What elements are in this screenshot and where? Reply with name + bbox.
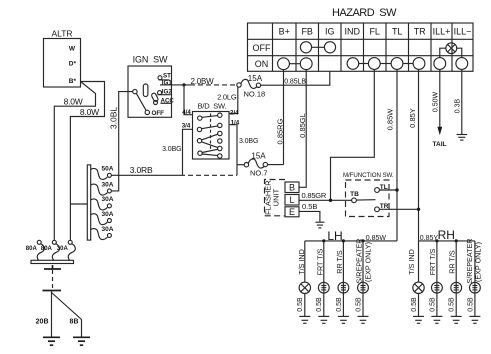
svg-text:50A: 50A xyxy=(102,166,114,173)
ground (battery 20B) xyxy=(43,337,60,345)
svg-text:0.85LB: 0.85LB xyxy=(284,78,306,85)
svg-text:8B: 8B xyxy=(70,319,79,326)
svg-text:D*: D* xyxy=(69,60,77,67)
LH bus wire xyxy=(305,240,397,242)
svg-text:B/D SW.: B/D SW. xyxy=(198,102,227,111)
wire ILL- drop 0.3B to ground xyxy=(454,69,462,134)
svg-text:OFF: OFF xyxy=(253,43,271,53)
ground (LH T/S IND) xyxy=(299,316,310,323)
svg-text:30A: 30A xyxy=(102,211,114,218)
wire 8.0W second branch to fusible link 30A xyxy=(70,82,104,241)
svg-text:UNIT: UNIT xyxy=(272,188,281,206)
svg-text:8.0W: 8.0W xyxy=(64,97,83,107)
svg-text:0.50W: 0.50W xyxy=(433,91,440,112)
hazard switch table grid xyxy=(248,23,474,71)
ground (LH RR T/S) xyxy=(338,316,349,323)
svg-text:TR: TR xyxy=(414,27,426,37)
IGN SW IG2 terminal xyxy=(157,88,172,95)
svg-text:ALTR: ALTR xyxy=(51,29,72,39)
svg-text:0.5B: 0.5B xyxy=(411,297,418,312)
svg-text:0.85GR: 0.85GR xyxy=(302,191,327,200)
RH turn signal indicator lamp T/S IND xyxy=(407,241,424,317)
svg-text:0.5B: 0.5B xyxy=(297,297,304,312)
svg-text:30A: 30A xyxy=(102,196,114,203)
ground (ILL-) xyxy=(457,135,468,141)
junction node on 2.0BW xyxy=(182,83,185,86)
fuse 30A spare xyxy=(91,211,114,225)
svg-text:0.5B: 0.5B xyxy=(336,297,343,312)
svg-text:30A: 30A xyxy=(102,181,114,188)
svg-text:L: L xyxy=(289,195,294,205)
wire fuse NO.18 to B+ / IG column 0.85LB xyxy=(261,71,330,85)
wire TL drop 0.85W xyxy=(385,69,397,241)
junction node TB feed xyxy=(329,199,332,202)
wire 8.0W from B* to fusible link 80A xyxy=(54,82,95,241)
function switch arm xyxy=(356,199,375,201)
fuse 15A NO.18 xyxy=(237,74,265,98)
svg-text:30A: 30A xyxy=(57,246,69,252)
fusible link 80A xyxy=(41,240,60,260)
function switch TB contact xyxy=(350,191,359,203)
svg-text:15A: 15A xyxy=(251,151,266,160)
hazard table header labels xyxy=(279,27,472,37)
svg-text:OFF: OFF xyxy=(152,110,165,117)
alternator ALTR xyxy=(44,29,81,87)
wire TR drop 0.85Y xyxy=(408,69,419,241)
svg-text:RH: RH xyxy=(438,228,455,242)
ON row contact ILL- xyxy=(456,58,468,70)
ON row contact TR xyxy=(413,58,425,70)
ground (RH T/S IND) xyxy=(413,316,424,323)
svg-text:0.85GL: 0.85GL xyxy=(298,113,307,138)
wire 20B to ground xyxy=(36,291,52,338)
body/dimmer switch B/D SW xyxy=(193,102,230,159)
svg-text:3.0RB: 3.0RB xyxy=(130,165,153,175)
fusible link 80A (spare) xyxy=(26,240,45,260)
junction node TR column xyxy=(417,208,420,211)
fuse 50A xyxy=(91,166,114,180)
wire fuse NO.7 to hazard B+ drop xyxy=(268,164,284,166)
function switch TL contact xyxy=(375,184,397,193)
junction node TL column xyxy=(395,188,398,191)
flasher terminal L xyxy=(285,195,299,206)
LH side repeater lamp S/REPEATER (EXP ONLY) xyxy=(354,239,372,317)
ON row contact ILL+ xyxy=(434,58,446,70)
svg-text:RR T/S: RR T/S xyxy=(448,250,457,274)
RH bus wire xyxy=(419,240,475,242)
ON row contact TL xyxy=(391,58,403,70)
svg-text:2.0BW: 2.0BW xyxy=(191,77,215,86)
svg-text:ILL−: ILL− xyxy=(454,27,472,37)
wire link to fuse busbar xyxy=(70,203,87,205)
svg-text:30A: 30A xyxy=(102,226,114,233)
fuse 30A (to IGN SW 3.0BL) xyxy=(91,181,114,195)
svg-text:1/4: 1/4 xyxy=(231,120,240,127)
wire FL drop to function switch TB node xyxy=(331,69,375,200)
svg-text:80A: 80A xyxy=(26,246,38,252)
wire 2.0BW from IG1 to fuse NO.18 xyxy=(172,77,237,86)
ground (flasher E) xyxy=(315,222,324,228)
multifunction switch M/FUNCTION SW xyxy=(343,172,394,217)
svg-text:3.0BG: 3.0BG xyxy=(162,146,181,153)
IGN SW IG1 terminal xyxy=(160,79,172,86)
wire B+ drop 0.85RG xyxy=(275,69,284,164)
ON row IND-FL-TL-TR links xyxy=(359,63,414,65)
wire 3.0RB from 50A fuse xyxy=(111,165,237,176)
flasher terminal E xyxy=(285,207,299,217)
svg-text:NO.18: NO.18 xyxy=(244,89,266,98)
B/D SW wiper diagonals xyxy=(202,116,218,156)
fusible link 30A xyxy=(57,240,76,260)
IGN SW OFF contact xyxy=(145,110,164,117)
svg-text:4/4: 4/4 xyxy=(182,109,191,116)
ON row contact FL xyxy=(368,58,380,70)
IGN SW pivot contact xyxy=(133,89,137,93)
flasher unit dashed enclosure xyxy=(264,180,286,216)
svg-text:IND: IND xyxy=(344,27,360,37)
wire ILL+ drop 0.50W to TAIL xyxy=(433,69,447,148)
svg-text:0.5B: 0.5B xyxy=(449,297,456,312)
ground (RH RR T/S) xyxy=(451,316,462,323)
svg-text:0.85Y: 0.85Y xyxy=(408,108,417,128)
ON row B+-FB link xyxy=(289,63,300,65)
OFF row FB-IG link xyxy=(312,46,325,48)
fuse 15A NO.7 xyxy=(237,151,268,177)
ground (LH FRT T/S) xyxy=(318,316,329,323)
ground (LH S/REPEATER) xyxy=(358,316,369,323)
svg-text:FB: FB xyxy=(301,27,313,37)
svg-text:3.0BG: 3.0BG xyxy=(239,138,258,145)
svg-text:15A: 15A xyxy=(248,74,263,83)
flasher terminal B xyxy=(285,182,299,193)
svg-text:S/REPEATER: S/REPEATER xyxy=(354,239,363,284)
svg-text:80A: 80A xyxy=(41,246,53,252)
svg-text:TAIL: TAIL xyxy=(433,141,447,148)
ON row contact FB xyxy=(300,58,312,70)
RH rear turn signal lamp RR T/S xyxy=(448,241,462,317)
junction nodes LH bus xyxy=(322,239,325,242)
fuse 30A spare xyxy=(91,226,114,240)
svg-text:3.0BL: 3.0BL xyxy=(109,107,119,129)
ground (RH S/REPEATER) xyxy=(469,316,480,323)
RH front turn signal lamp FRT T/S xyxy=(428,241,442,317)
wire 8B to ground xyxy=(52,293,82,338)
svg-text:IGN SW: IGN SW xyxy=(133,55,168,65)
svg-text:0.5B: 0.5B xyxy=(302,202,317,211)
IGN SW contact capsule tilted xyxy=(151,92,159,102)
svg-text:3/4: 3/4 xyxy=(182,122,191,129)
LH turn signal indicator lamp T/S IND xyxy=(297,241,310,317)
fuse busbar (fuse box) xyxy=(87,165,90,240)
svg-text:B: B xyxy=(289,183,295,193)
wire FB drop 0.85GL to flasher B xyxy=(298,69,307,187)
ground (RH FRT T/S) xyxy=(431,316,442,323)
svg-text:HAZARD SW: HAZARD SW xyxy=(332,7,397,19)
svg-text:B+: B+ xyxy=(279,27,290,37)
IGN SW rotor arm xyxy=(136,93,146,110)
LH front turn signal lamp FRT T/S xyxy=(316,241,330,317)
OFF row contact FB xyxy=(300,42,311,53)
wire 3.0BL from 30A fuse to IGN SW xyxy=(109,92,133,191)
ON row contact IND xyxy=(347,58,359,70)
wire 0.85GR from L to TB xyxy=(299,191,352,200)
illumination lamp in OFF row xyxy=(440,43,462,58)
svg-text:8.0W: 8.0W xyxy=(80,107,99,117)
wire 2.0LG to B/D SW 2/4 xyxy=(217,87,238,113)
wire 0.5B from E to ground xyxy=(299,202,320,222)
svg-text:2/4: 2/4 xyxy=(230,110,239,117)
svg-text:0.85W: 0.85W xyxy=(385,108,394,131)
svg-text:IG: IG xyxy=(325,27,335,37)
svg-text:0.85RG: 0.85RG xyxy=(275,118,284,144)
B/D SW terminal 4/4 wire xyxy=(182,85,192,116)
svg-text:20B: 20B xyxy=(36,319,49,326)
IGN SW contact capsule vertical xyxy=(143,84,148,97)
fusible link busbar xyxy=(31,260,74,263)
OFF row contact IG xyxy=(324,42,335,53)
svg-text:(EXP ONLY): (EXP ONLY) xyxy=(364,242,373,282)
svg-text:ON: ON xyxy=(255,59,269,69)
svg-text:0.5B: 0.5B xyxy=(316,297,323,312)
svg-text:ILL+: ILL+ xyxy=(433,27,451,37)
svg-text:FL: FL xyxy=(369,27,380,37)
svg-text:E: E xyxy=(289,207,295,217)
B/D SW terminal 3/4 wire xyxy=(182,122,193,175)
svg-text:FRT T/S: FRT T/S xyxy=(428,248,437,275)
IGN SW ACC terminal xyxy=(154,97,175,104)
battery xyxy=(43,265,62,290)
junction nodes RH bus xyxy=(435,239,438,242)
svg-text:0.5B: 0.5B xyxy=(355,297,362,312)
function switch TR contact xyxy=(375,203,419,212)
svg-text:M/FUNCTION SW.: M/FUNCTION SW. xyxy=(343,172,394,179)
svg-text:B*: B* xyxy=(69,78,77,85)
B/D SW left contacts xyxy=(197,116,202,155)
svg-text:2.0LG: 2.0LG xyxy=(217,93,237,102)
fuse 30A spare xyxy=(91,196,114,210)
B/D SW mechanical link dashed xyxy=(210,114,212,151)
svg-text:0.5B: 0.5B xyxy=(429,297,436,312)
B/D SW right contacts xyxy=(218,113,222,158)
B/D SW terminal 1/4 wire xyxy=(229,120,240,176)
svg-text:T/S IND: T/S IND xyxy=(407,249,416,275)
IGN SW ST terminal xyxy=(158,73,171,80)
svg-text:0.5B: 0.5B xyxy=(467,297,474,312)
svg-text:W: W xyxy=(69,46,76,53)
RH side repeater lamp S/REPEATER (EXP ONLY) xyxy=(465,239,482,317)
svg-text:TL: TL xyxy=(392,27,403,37)
svg-text:TB: TB xyxy=(350,191,359,198)
ignition switch IGN SW xyxy=(128,55,172,118)
ground (battery 8B) xyxy=(73,337,90,345)
LH rear turn signal lamp RR T/S xyxy=(335,241,349,317)
svg-text:0.3B: 0.3B xyxy=(454,98,461,113)
ON row contact B+ xyxy=(278,58,290,70)
B/D SW terminal 2/4 wire xyxy=(229,110,239,117)
svg-text:NO.7: NO.7 xyxy=(250,169,268,178)
